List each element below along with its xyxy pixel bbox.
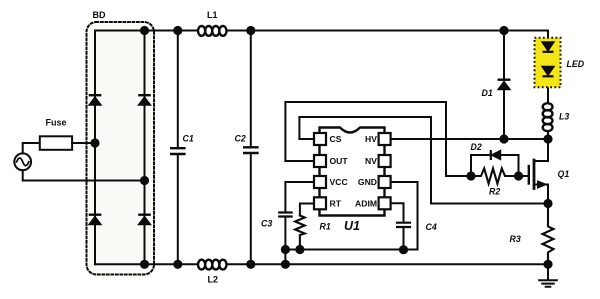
node C2-bottom	[246, 260, 255, 269]
capacitor C1	[177, 31, 179, 265]
LED yellow box	[535, 38, 561, 88]
capacitor C4	[397, 223, 410, 227]
svg-text:D2: D2	[471, 142, 482, 152]
inductor L1	[198, 26, 226, 36]
pin OUT	[314, 155, 326, 167]
diode D1 symbol	[498, 80, 511, 90]
node D1-top	[499, 26, 508, 35]
svg-text:RT: RT	[330, 198, 342, 208]
node Q1-source	[543, 199, 552, 208]
bridge right leg wire	[144, 31, 146, 265]
pin GND	[379, 176, 391, 188]
wire fuse to bridge left	[72, 142, 95, 144]
node wire HV to switch node	[391, 138, 548, 140]
node gnd-rail	[281, 260, 290, 269]
bottom rail wire right of L2	[227, 263, 549, 265]
VCC wire to C3	[285, 182, 314, 212]
svg-text:L1: L1	[207, 10, 218, 20]
node switch	[543, 134, 552, 143]
svg-text:D1: D1	[482, 88, 493, 98]
node C4-gnd	[399, 245, 408, 254]
diode D2 loop wires	[471, 155, 519, 176]
svg-text:CS: CS	[330, 134, 342, 144]
node R3-bottom	[543, 260, 552, 269]
Q1 source arrow	[538, 181, 547, 188]
capacitor C2	[250, 31, 252, 265]
node top-bridge-out	[140, 26, 149, 35]
LED chain vertical wire	[547, 31, 549, 104]
svg-text:GND: GND	[358, 177, 377, 187]
node R2-left	[466, 171, 475, 180]
bridge diode BR-bot-left	[89, 215, 102, 225]
diode D2 symbol	[491, 150, 501, 160]
node bridge-bottom	[140, 260, 149, 269]
node C1-bottom	[173, 260, 182, 269]
resistor R1	[295, 216, 305, 250]
LED D3	[542, 42, 554, 52]
pin VCC	[314, 176, 326, 188]
bridge left leg wire	[94, 31, 96, 265]
pin NV	[379, 155, 391, 167]
bridge diode BR-top-left	[89, 95, 102, 105]
wire AC top to fuse	[23, 143, 40, 153]
ADIM pin wire to C4	[391, 203, 404, 222]
wire AC bottom to bridge right	[23, 170, 145, 180]
node fuse-bridge	[90, 138, 99, 147]
top rail wire right of L1	[227, 30, 549, 32]
HV stub	[391, 138, 394, 140]
bridge diode BR-bot-right	[138, 215, 151, 225]
drop to bottom rail	[284, 250, 286, 265]
GND pin wire	[391, 182, 418, 250]
bridge rectifier BD dashed box	[87, 22, 155, 275]
top rail wire	[95, 30, 198, 32]
RT wire to R1	[300, 204, 314, 216]
svg-text:R1: R1	[320, 222, 331, 232]
svg-text:VCC: VCC	[330, 177, 348, 187]
svg-text:C2: C2	[235, 133, 246, 143]
svg-text:LED: LED	[567, 59, 585, 69]
resistor R3	[543, 204, 554, 265]
diode D1	[503, 31, 505, 140]
pin CS	[314, 133, 326, 145]
bridge diode BR-top-right	[138, 95, 151, 105]
svg-text:OUT: OUT	[330, 156, 349, 166]
svg-text:L3: L3	[559, 111, 569, 121]
inductor L2	[198, 260, 226, 270]
capacitor C3	[279, 213, 291, 217]
svg-text:C3: C3	[261, 219, 272, 229]
node ac-bridge	[140, 176, 149, 185]
svg-text:U1: U1	[344, 219, 360, 233]
inductor L3	[543, 103, 553, 131]
wire CS loop to source node	[299, 117, 548, 204]
svg-text:R2: R2	[489, 186, 500, 196]
fuse F1	[40, 136, 72, 150]
resistor R2	[471, 168, 519, 183]
wire D2 R2 from OUT loop	[285, 102, 471, 176]
signal ground rail	[285, 249, 417, 251]
node D1-bottom	[499, 134, 508, 143]
node R2-right	[514, 171, 523, 180]
IC U1 body	[320, 128, 385, 216]
pin RT	[314, 197, 326, 209]
svg-text:HV: HV	[365, 134, 377, 144]
svg-text:NV: NV	[365, 156, 377, 166]
pin ADIM	[379, 197, 391, 209]
svg-text:ADIM: ADIM	[355, 198, 377, 208]
transistor Q1	[519, 175, 529, 177]
svg-text:R3: R3	[510, 234, 521, 244]
pin labels	[330, 134, 378, 208]
svg-text:Fuse: Fuse	[46, 117, 67, 127]
node C1-top	[173, 26, 182, 35]
node C2-top	[246, 26, 255, 35]
node R1-gnd	[295, 245, 304, 254]
ground	[547, 264, 549, 280]
LED D4	[542, 67, 554, 77]
svg-text:C1: C1	[183, 133, 194, 143]
AC source V1	[14, 153, 31, 170]
svg-text:L2: L2	[208, 275, 219, 285]
svg-text:BD: BD	[93, 10, 106, 20]
node C3-gnd	[281, 245, 290, 254]
svg-text:C4: C4	[426, 222, 437, 232]
pin HV	[379, 133, 391, 145]
bottom rail wire	[95, 263, 198, 265]
svg-text:Q1: Q1	[558, 169, 570, 179]
